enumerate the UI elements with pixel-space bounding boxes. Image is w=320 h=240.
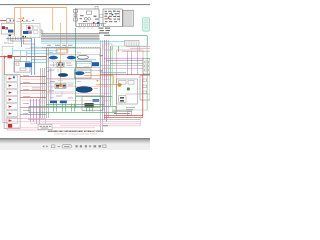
vertical drop from pilot valve — [13, 57, 15, 72]
stack unit 2 arrow — [9, 84, 12, 86]
green manifold frame — [29, 106, 116, 112]
title block small — [38, 124, 52, 129]
spool travel straight 2 — [60, 100, 67, 103]
magenta risers bottom left — [31, 99, 40, 124]
inline fitting boxes — [6, 19, 10, 23]
wire red pilot main — [0, 56, 47, 58]
gray hose bundle right turn — [100, 40, 108, 130]
stack output wires magenta — [20, 108, 46, 115]
pump bottom stubs — [80, 27, 92, 29]
wire red return right — [100, 74, 150, 76]
motor case drain mark — [9, 35, 12, 37]
stack unit 3 — [6, 90, 18, 95]
bottom bus gray — [28, 119, 141, 121]
red solenoid valve — [8, 55, 13, 58]
accumulator box far right — [140, 76, 150, 100]
unit right blue spool — [23, 31, 29, 34]
stack label dashes — [23, 75, 31, 114]
stack unit 6 arrow — [9, 112, 12, 114]
valve inner ticks — [52, 62, 65, 95]
unit right red dot — [28, 26, 31, 29]
red port dots above unit — [22, 20, 23, 21]
spool arm1 — [67, 56, 76, 60]
stack unit 1 blue dot — [13, 76, 15, 78]
green comb verticals — [53, 104, 92, 112]
valve block dashed top — [42, 47, 100, 49]
orange port dot — [97, 80, 99, 82]
junction small box lower right — [128, 112, 132, 116]
wire orange branch right — [84, 76, 122, 85]
stack output wires red short — [20, 77, 46, 98]
main relief cluster — [55, 84, 66, 88]
pump top notch — [95, 6, 98, 9]
tank dark blob — [85, 103, 94, 108]
viewer toolbar icons — [43, 145, 107, 148]
stack bottom red block — [8, 124, 12, 128]
radiator box — [125, 40, 140, 46]
connector stubs — [32, 88, 40, 90]
small gauge box mid-left — [8, 40, 13, 43]
pump sensor red — [93, 22, 95, 24]
orange accumulator dot — [118, 83, 122, 87]
pilot valve right edge — [143, 59, 150, 74]
inner valve boxes — [58, 63, 60, 65]
pump gauge comb row — [78, 24, 106, 26]
wire pink inlet right — [126, 47, 150, 49]
stack unit 2 — [6, 83, 18, 88]
gray stub line — [16, 20, 31, 22]
pump assembly outline — [76, 9, 99, 27]
viewer background below page — [0, 139, 150, 150]
stack unit 6 — [6, 111, 18, 116]
spool aux — [75, 71, 85, 75]
spool boom1 — [49, 56, 58, 60]
harness branch wires to valve — [100, 58, 143, 68]
green indicator square — [127, 88, 130, 91]
stack output wires pink long — [22, 80, 110, 101]
wire terminator dashes — [103, 124, 108, 127]
magenta port dashes — [100, 55, 103, 56]
pump link box — [100, 15, 104, 18]
right bottom label dashes — [112, 111, 132, 114]
hose clamp cluster — [99, 28, 111, 36]
pilot valve unit left — [1, 24, 14, 35]
wire orange supply top — [14, 8, 67, 53]
right vertical harness magenta — [104, 40, 106, 122]
stack unit 3 arrow — [9, 91, 12, 93]
pilot bundle left of valve block — [40, 48, 48, 118]
unit right dark dots — [22, 36, 24, 38]
bottom bus pink lines — [8, 116, 141, 126]
gray hose bundle left riser — [41, 29, 43, 35]
pump regulator box — [87, 11, 92, 14]
wire red drop to manifold — [3, 57, 5, 75]
valve label dashes — [47, 45, 73, 72]
orange stub top left — [18, 18, 24, 20]
enclosure frame left — [2, 46, 14, 122]
valve inner fine marks — [48, 63, 91, 99]
gray rail lower right — [125, 93, 150, 95]
wire pink bottom long — [8, 127, 95, 129]
junction box small — [104, 44, 112, 50]
pump circles — [84, 17, 87, 20]
solenoid block blue — [92, 62, 99, 66]
right label dashes small — [126, 106, 135, 109]
wire cyan pilot lines — [13, 42, 126, 73]
orange valve dot — [59, 84, 62, 87]
valve block inner rails — [46, 55, 104, 96]
tiny label dash — [4, 42, 7, 45]
stack unit 7 arrow — [9, 119, 12, 121]
pump right dense block — [105, 11, 120, 23]
stack unit 1 arrow — [9, 77, 12, 79]
stack unit 5 arrow — [9, 105, 12, 107]
main control valve block outline — [46, 48, 100, 107]
unit left blue spool — [8, 30, 13, 33]
unit left magenta coil — [5, 27, 8, 30]
blue pilot filter — [25, 63, 32, 68]
cyan short seg in block — [76, 63, 91, 65]
purple pilot line — [50, 68, 52, 100]
drawing frame top border — [0, 4, 150, 5]
pink reservoir frame bottom left — [7, 119, 46, 130]
stack unit 7 — [6, 118, 18, 123]
wire blue risers — [22, 38, 35, 76]
gray rail right — [122, 50, 150, 52]
wire green tank rail — [46, 28, 147, 110]
swing motor big spool — [76, 86, 92, 92]
red node dot — [4, 56, 6, 58]
pilot valve unit right — [22, 24, 41, 38]
pilot control stack outline — [4, 75, 20, 129]
page drop shadow — [0, 139, 150, 144]
stack unit 5 — [6, 104, 18, 109]
spool travel straight — [50, 100, 57, 103]
gray hose bundle horizontal — [41, 34, 100, 40]
page bottom edge — [0, 138, 150, 139]
oil cooler cyan — [142, 18, 149, 32]
unit right port boxes — [34, 26, 39, 29]
suction strainer column — [74, 8, 78, 26]
pump internal marks — [80, 15, 99, 22]
radiator drop lines — [138, 46, 140, 52]
spool small right — [93, 99, 100, 102]
unit left red blob — [2, 26, 5, 29]
spool bucket outline — [77, 55, 88, 59]
svg-text:HIDROMEK HMK 102B MAXIMECHANIC: HIDROMEK HMK 102B MAXIMECHANIC HYDRAULIC… — [48, 130, 104, 133]
wire orange pilot vertical — [60, 23, 62, 86]
orange dot fitting — [23, 17, 25, 19]
orange relief box — [56, 49, 68, 53]
pump right tick marks — [106, 11, 120, 22]
mid-left valve unit — [14, 62, 30, 73]
bottom bus red lines — [104, 75, 143, 118]
gearbox hatched box — [123, 10, 133, 26]
breaker valve box right — [116, 79, 137, 104]
stack unit 4 arrow — [9, 98, 12, 100]
red outer frame right — [117, 50, 143, 116]
wire red brake line — [0, 20, 15, 22]
page background — [0, 0, 150, 150]
spool swing dark — [58, 73, 68, 77]
pump right sensor dots — [108, 17, 110, 19]
green outer frame right — [113, 46, 148, 110]
wire red return left — [23, 38, 35, 44]
check valve comb row — [6, 37, 32, 41]
stack unit 4 — [6, 97, 18, 102]
stack unit 1 — [6, 76, 18, 81]
unit right relief box — [27, 25, 33, 30]
pump sensor blue — [97, 22, 99, 24]
unit right magenta coil — [29, 31, 32, 34]
